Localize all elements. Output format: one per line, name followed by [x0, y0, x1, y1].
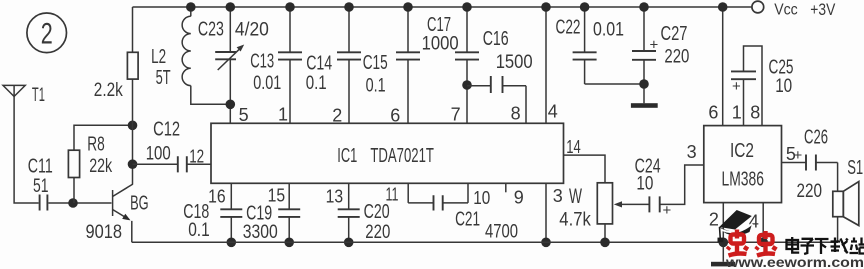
svg-text:C23: C23 [198, 19, 224, 41]
svg-text:0.1: 0.1 [188, 220, 210, 241]
svg-text:5: 5 [239, 105, 249, 125]
svg-text:1000: 1000 [422, 34, 459, 55]
svg-text:C11: C11 [28, 155, 53, 177]
svg-text:Vcc: Vcc [774, 1, 798, 18]
svg-text:C16: C16 [483, 28, 509, 50]
capacitor C24 electrolytic 10 [635, 156, 704, 219]
svg-text:2: 2 [709, 210, 719, 230]
node C14 top [344, 2, 354, 12]
capacitor C11 [28, 155, 53, 210]
svg-text:TDA7021T: TDA7021T [370, 145, 434, 167]
svg-text:22k: 22k [89, 156, 112, 177]
svg-text:6: 6 [708, 103, 718, 123]
svg-text:5T: 5T [156, 67, 171, 89]
pin 9 stub [505, 183, 507, 192]
svg-text:BG: BG [130, 192, 149, 214]
svg-text:14: 14 [566, 137, 581, 157]
wire IC2 pin 4 to rail [762, 203, 764, 243]
watermark red bug 1 [728, 230, 749, 256]
antenna T1 [3, 85, 45, 106]
svg-text:100: 100 [146, 144, 171, 165]
svg-text:L2: L2 [151, 46, 166, 68]
wire C22 C27 to ground [585, 84, 644, 103]
svg-text:C27: C27 [661, 23, 688, 45]
svg-text:C12: C12 [153, 119, 180, 141]
node C22 top [580, 2, 590, 12]
watermark site name zi [801, 239, 815, 254]
svg-text:7: 7 [451, 105, 461, 125]
svg-text:2.2k: 2.2k [94, 80, 123, 101]
node C13 top [285, 2, 295, 12]
svg-text:9018: 9018 [86, 222, 123, 243]
svg-text:1: 1 [278, 105, 288, 125]
wire pin 4 to rail [545, 7, 547, 123]
svg-text:C21: C21 [455, 209, 480, 231]
svg-text:1500: 1500 [496, 52, 533, 73]
ground symbol 1 [631, 103, 658, 108]
svg-text:12: 12 [189, 147, 204, 167]
svg-text:51: 51 [33, 176, 49, 197]
node C20 bottom [344, 238, 354, 248]
inductor L2 5T [151, 7, 230, 104]
svg-text:www.eeworm.com: www.eeworm.com [725, 254, 864, 269]
svg-text:3: 3 [687, 142, 697, 162]
svg-text:8: 8 [750, 103, 760, 123]
svg-text:16: 16 [208, 187, 226, 207]
node C27 bottom junction [639, 79, 649, 89]
node IC2 pin 2 [719, 238, 729, 248]
svg-text:10: 10 [473, 188, 490, 208]
svg-text:IC1: IC1 [337, 145, 357, 167]
node C12 junction [128, 159, 138, 169]
capacitor C13 0.01 [250, 7, 302, 123]
svg-text:220: 220 [664, 47, 689, 68]
watermark site name zai [831, 238, 848, 254]
node pin 4 top [541, 2, 551, 12]
svg-text:13: 13 [326, 187, 344, 207]
wiper arrow [614, 201, 649, 207]
node L2 top [186, 2, 196, 12]
svg-text:R8: R8 [87, 133, 105, 155]
node C19 bottom [284, 238, 294, 248]
watermark site name dian [787, 237, 800, 253]
svg-text:10: 10 [775, 76, 792, 97]
node C16 tap on pin 7 line [462, 80, 472, 90]
svg-text:3: 3 [553, 186, 563, 206]
svg-text:T1: T1 [32, 85, 45, 106]
svg-text:LM386: LM386 [722, 169, 765, 191]
capacitor C17 1000 [422, 7, 479, 123]
svg-text:S1: S1 [847, 157, 863, 179]
svg-text:0.1: 0.1 [366, 75, 386, 96]
node base junction [68, 198, 78, 208]
wire bottom ground rail [132, 241, 838, 243]
capacitor C15 0.1 [363, 7, 420, 123]
capacitor C25 electrolytic 10 [731, 46, 794, 126]
transistor Q1 BG 9018 [86, 184, 149, 243]
op-amp U1 IC1 TDA7021T [211, 123, 564, 183]
wire IC2 pin 2 to ground [722, 203, 724, 262]
capacitor C21 4700 [408, 183, 518, 242]
svg-text:2: 2 [41, 18, 53, 51]
capacitor C26 electrolytic 220 [782, 127, 838, 203]
watermark site name xia [815, 239, 829, 254]
svg-text:220: 220 [797, 181, 823, 202]
svg-text:4700: 4700 [485, 221, 518, 242]
svg-text:IC2: IC2 [730, 140, 754, 162]
wire top supply rail [133, 6, 752, 8]
capacitor C20 220 [338, 183, 391, 243]
wire pin 3 to bottom rail [545, 183, 547, 242]
svg-text:8: 8 [511, 104, 521, 124]
svg-text:C15: C15 [363, 52, 388, 74]
resistor 2.2k [94, 7, 138, 184]
wire rail to IC2 pin 6 [722, 7, 724, 126]
node W bottom [600, 238, 610, 248]
node R8 top junction [128, 121, 138, 131]
watermark red bug 2 [756, 231, 777, 256]
svg-text:9: 9 [514, 188, 524, 208]
svg-text:0.01: 0.01 [593, 20, 624, 41]
wire C11 to transistor base [48, 202, 111, 204]
svg-text:4/20: 4/20 [235, 20, 269, 41]
svg-text:+3V: +3V [810, 1, 835, 19]
svg-text:1: 1 [732, 103, 742, 123]
node pin 5 junction [226, 100, 236, 110]
svg-text:C22: C22 [556, 17, 581, 39]
speaker S1 [833, 157, 863, 243]
svg-text:+: + [650, 37, 659, 54]
capacitor C16 1500 [467, 28, 533, 123]
op-amp U2 IC2 LM386 [704, 126, 782, 203]
node C23 top [226, 2, 236, 12]
svg-text:4: 4 [548, 102, 558, 122]
terminal Vcc +3V [752, 1, 835, 19]
capacitor C18 0.1 [183, 183, 242, 242]
wire antenna to C11 [14, 97, 38, 204]
node C27 top [639, 2, 649, 12]
capacitor C12 [133, 119, 212, 173]
svg-text:10: 10 [636, 173, 653, 194]
ground symbol 2 [711, 262, 735, 267]
node pin 3 bottom [541, 238, 551, 248]
svg-text:+: + [794, 147, 803, 164]
svg-text:0.1: 0.1 [306, 73, 327, 94]
capacitor C14 0.1 [306, 7, 361, 123]
node IC2 supply branch [718, 2, 728, 12]
svg-text:11: 11 [386, 185, 399, 205]
resistor R8 22k [68, 125, 132, 203]
svg-text:0.01: 0.01 [253, 73, 281, 94]
watermark site name zhan [850, 238, 864, 254]
node C17 top [462, 2, 472, 12]
svg-text:3300: 3300 [243, 222, 278, 243]
capacitor C19 3300 [243, 183, 300, 243]
figure number circle 2 [27, 13, 67, 53]
svg-text:+: + [732, 78, 741, 95]
potentiometer W 4.7k [559, 155, 612, 242]
svg-text:W: W [569, 185, 582, 208]
capacitor C23 variable 4/20 [198, 7, 269, 123]
pin 5 label IC2 [786, 144, 803, 164]
node IC2 pin 4 [758, 238, 768, 248]
capacitor C27 electrolytic 220 [632, 7, 689, 84]
node C18 bottom [227, 238, 237, 248]
node C15 top [403, 2, 413, 12]
capacitor C22 0.01 [556, 7, 625, 84]
svg-text:C13: C13 [250, 51, 274, 73]
svg-text:15: 15 [268, 186, 286, 206]
svg-text:C26: C26 [804, 127, 828, 149]
svg-text:C14: C14 [306, 53, 332, 75]
watermark graduation cap [718, 210, 753, 242]
svg-text:4.7k: 4.7k [559, 210, 591, 231]
svg-text:220: 220 [365, 222, 390, 243]
